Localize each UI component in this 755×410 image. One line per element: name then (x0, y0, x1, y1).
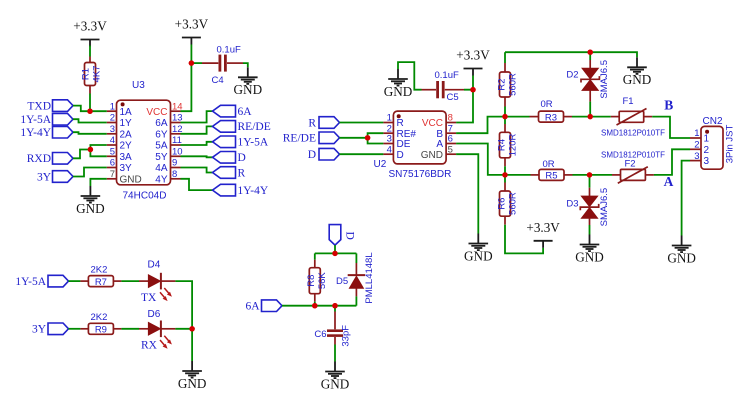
wire R4 to junction (504, 166, 506, 175)
CN2 pin names (704, 134, 710, 168)
capacitor C4 0.1uF (202, 45, 243, 86)
node junction +3.3V/C4 (189, 60, 194, 65)
svg-text:1: 1 (387, 113, 392, 124)
svg-text:D4: D4 (148, 259, 161, 270)
ground (LEDs) (178, 361, 207, 391)
diode D6 LED RX (139, 309, 175, 351)
wire R7 to D4 (121, 280, 139, 282)
resistor R2 560R (497, 52, 519, 106)
wire R flag to U2 pin1 (340, 122, 384, 124)
node junction R2/R4/B (502, 114, 507, 119)
svg-text:4K7: 4K7 (92, 66, 103, 83)
node junction D2 bottom (588, 114, 593, 119)
svg-text:D: D (308, 149, 316, 161)
svg-text:5Y: 5Y (155, 152, 168, 163)
node junction C6 top (332, 303, 337, 308)
wire 3Y to U3 pin6 (73, 168, 107, 177)
svg-text:D5: D5 (336, 276, 348, 287)
svg-text:SMD1812P010TF: SMD1812P010TF (601, 128, 665, 137)
svg-text:F1: F1 (623, 96, 634, 107)
resistor R8 56K (306, 253, 328, 301)
node junction C5/+3.3V/pin8 (470, 87, 475, 92)
ground (U2 pin5) (464, 234, 493, 264)
svg-text:PMLL4148L: PMLL4148L (364, 252, 375, 303)
svg-text:1: 1 (110, 101, 115, 112)
svg-text:R9: R9 (95, 325, 107, 336)
wire top rail R2 to GND corner (505, 52, 637, 57)
svg-text:SMAJ6.5: SMAJ6.5 (599, 188, 610, 227)
svg-text:RX: RX (141, 340, 158, 352)
svg-text:8: 8 (172, 169, 177, 180)
svg-text:R: R (308, 117, 316, 129)
wire junction to C4 (191, 62, 202, 64)
wire C4 to ground (243, 63, 248, 67)
wire D flag to U2 pin4 (340, 153, 384, 155)
svg-text:DE: DE (397, 139, 411, 150)
svg-text:A: A (664, 174, 674, 189)
wire RXD to junction (73, 150, 90, 159)
svg-text:R1: R1 (81, 68, 92, 80)
svg-text:R2: R2 (497, 78, 508, 90)
svg-text:3: 3 (110, 124, 115, 135)
junction dots top layer (87, 50, 593, 332)
node junction RE/DE (365, 135, 370, 140)
transistor U2 SN75176BDR body (374, 111, 452, 180)
svg-text:0.1uF: 0.1uF (217, 45, 241, 56)
U3 right pin stubs (171, 111, 181, 179)
U2 left pin stubs (383, 123, 393, 155)
svg-text:6A: 6A (238, 106, 253, 118)
U3 pin names right (146, 107, 167, 186)
svg-text:6Y: 6Y (155, 129, 168, 140)
net flag 6A (U3 pin13) (213, 105, 253, 118)
svg-text:A: A (436, 139, 443, 150)
resistor R5 0R (531, 159, 573, 182)
svg-text:4: 4 (110, 135, 115, 146)
svg-text:3Pin JST: 3Pin JST (725, 125, 736, 164)
svg-text:RE/DE: RE/DE (238, 121, 271, 133)
wire junction down to U2 pin8 (456, 90, 473, 123)
resistor R7 2K2 (80, 264, 121, 288)
connector CN2 3Pin JST body (701, 116, 736, 169)
svg-text:1Y-5A: 1Y-5A (238, 137, 269, 149)
wire A net: U2 pin6 to R5 line (456, 144, 530, 175)
wire 3Y flag to R9 (69, 328, 81, 330)
net flag 6A (bottom) (245, 300, 282, 313)
svg-text:RXD: RXD (27, 153, 51, 165)
svg-text:14: 14 (172, 101, 183, 112)
net flag 1Y-4Y (U3 pin3) (20, 126, 73, 139)
wire D6 to junction (175, 328, 192, 330)
wire TXD to U3 pin1 (73, 106, 107, 112)
fuse F1 SMD1812P010TF (601, 96, 665, 137)
node junction R8 bottom (312, 303, 317, 308)
svg-text:4Y: 4Y (155, 174, 168, 185)
net flag 1Y-5A (U3 pin2) (20, 113, 73, 126)
resistor R1 4K7 (81, 57, 103, 94)
svg-text:D2: D2 (566, 69, 578, 80)
svg-text:R3: R3 (545, 112, 557, 123)
svg-text:5A: 5A (155, 141, 168, 152)
wire D4 to junction column (175, 281, 192, 329)
wire junction to ground (191, 329, 193, 361)
resistor R4 120R (497, 117, 519, 167)
CN2 pin stubs (690, 138, 701, 161)
diode D5 PMLL4148L (336, 252, 375, 305)
svg-text:2K2: 2K2 (91, 264, 108, 275)
svg-text:1Y-5A: 1Y-5A (15, 276, 46, 288)
wire ground to C5 (398, 62, 422, 90)
svg-text:6: 6 (110, 158, 115, 169)
U2 pin numbers (387, 113, 453, 156)
wire U3 pin10 to D flag (181, 156, 213, 157)
svg-text:2A: 2A (120, 129, 133, 140)
svg-text:1A: 1A (120, 107, 133, 118)
svg-text:D3: D3 (566, 198, 578, 209)
U3 pin names left (120, 107, 142, 186)
net flag 1Y-5A (LED row) (15, 275, 68, 288)
svg-text:33pF: 33pF (341, 325, 352, 347)
svg-text:D: D (238, 152, 246, 164)
svg-text:2: 2 (694, 140, 699, 151)
svg-text:6A: 6A (155, 118, 168, 129)
wire top horizontal R8/D5 (315, 252, 357, 254)
net flag D (U2 pin4) (308, 148, 340, 161)
svg-text:2: 2 (110, 113, 115, 124)
svg-text:1Y: 1Y (120, 118, 133, 129)
ground (C6) (321, 362, 350, 392)
net flag 3Y (U3 pin6) (37, 171, 73, 184)
net flag TXD (27, 100, 73, 113)
svg-text:560R: 560R (508, 192, 519, 215)
svg-text:0R: 0R (543, 159, 555, 170)
svg-text:4: 4 (387, 144, 392, 155)
net flag RE/DE (U3 pin12) (213, 121, 271, 134)
wire +3.3V down to U3 pin14 (181, 45, 192, 112)
svg-text:GND: GND (421, 150, 443, 161)
capacitor C6 33pF (314, 306, 351, 347)
wire 1Y-5A flag to R7 (69, 280, 81, 282)
power flag +3.3V (R6) (526, 220, 560, 248)
op-amp U3 74HC04D body (117, 80, 171, 202)
svg-text:2: 2 (704, 145, 710, 156)
svg-text:SMAJ6.5: SMAJ6.5 (599, 60, 610, 99)
svg-text:SN75176BDR: SN75176BDR (389, 169, 452, 180)
svg-text:2K2: 2K2 (91, 312, 108, 323)
diode D2 SMAJ6.5 (566, 52, 610, 116)
U2 pin names (397, 118, 444, 161)
ground (C5) (384, 69, 413, 99)
wire U2 pin5 to ground (456, 154, 478, 233)
wire D flag down to junction (334, 245, 336, 253)
net flag R (U3 pin9) (213, 167, 246, 180)
power flag +3.3V (U3 VCC) (175, 17, 209, 45)
svg-text:1Y-5A: 1Y-5A (20, 114, 51, 126)
svg-text:C5: C5 (447, 92, 459, 103)
wire U3 pin7 to ground (90, 179, 106, 186)
svg-text:D: D (344, 232, 356, 240)
svg-text:D: D (397, 150, 404, 161)
svg-text:C4: C4 (212, 75, 224, 86)
svg-text:11: 11 (172, 135, 182, 146)
wire U3 pin4 to pin5 (90, 145, 106, 156)
wire R3 to F1 (572, 116, 611, 118)
svg-text:R: R (238, 167, 246, 179)
wire U3 pin9 to R flag (181, 168, 213, 173)
svg-text:560R: 560R (508, 73, 519, 96)
node junction D2 top rail (588, 50, 593, 55)
ground (C4) (234, 67, 263, 97)
wire 1Y-4Y to U3 pin3 (73, 132, 107, 134)
wire C6 to ground (334, 345, 336, 362)
svg-text:D6: D6 (148, 309, 161, 320)
wire RE/DE flag to junction (340, 137, 368, 139)
wire R6 to +3.3V (505, 225, 543, 254)
node junction D4/D6 (189, 326, 194, 331)
svg-text:120R: 120R (508, 134, 519, 157)
net flag 1Y-4Y (U3 pin8) (213, 184, 269, 197)
wire U3 pin12 to RE/DE flag (181, 126, 213, 133)
wire R5 to F2 (573, 174, 613, 176)
node junction R4/R6/A (502, 172, 507, 177)
svg-text:3A: 3A (120, 152, 133, 163)
svg-text:3: 3 (694, 151, 699, 162)
U3 pin numbers right (172, 101, 183, 180)
svg-text:3: 3 (704, 156, 710, 167)
U3 left pin stubs (107, 111, 117, 179)
svg-text:1: 1 (704, 134, 710, 145)
svg-text:3: 3 (387, 134, 392, 145)
svg-text:1Y-4Y: 1Y-4Y (20, 127, 51, 139)
power flag +3.3V (R1 pull-up) (73, 19, 107, 47)
svg-text:6: 6 (448, 134, 453, 145)
svg-text:R8: R8 (306, 275, 317, 287)
diode D4 LED TX (139, 259, 175, 304)
svg-text:5: 5 (448, 144, 453, 155)
ground (U3 pin7) (76, 186, 105, 216)
svg-text:1: 1 (694, 128, 699, 139)
ground (CN2 pin3) (667, 236, 696, 266)
net flag 1Y-5A (U3 pin11) (213, 136, 269, 149)
node junction D3 top (587, 172, 592, 177)
wire C5 to +3.3V junction (464, 76, 473, 90)
wire U3 pin8 to 1Y-4Y flag (181, 179, 213, 190)
svg-text:4A: 4A (155, 163, 168, 174)
node junction D split (332, 251, 337, 256)
svg-text:3Y: 3Y (32, 324, 47, 336)
svg-text:CN2: CN2 (703, 116, 723, 127)
net flag RE/DE (U2) (283, 132, 340, 145)
svg-text:56K: 56K (317, 272, 328, 290)
svg-text:R7: R7 (95, 277, 107, 288)
svg-text:R5: R5 (545, 171, 557, 182)
svg-text:C6: C6 (314, 329, 326, 340)
CN2 pin numbers (694, 128, 699, 162)
svg-text:TX: TX (141, 292, 157, 304)
svg-text:7: 7 (110, 169, 115, 180)
svg-text:0.1uF: 0.1uF (435, 70, 459, 81)
wire junction to U2 pins 2 and 3 (368, 133, 384, 143)
wire R2 to junction (504, 107, 506, 117)
wire R9 to D6 (121, 328, 139, 330)
svg-text:U2: U2 (374, 159, 387, 170)
svg-text:F2: F2 (625, 158, 636, 169)
wire CN2 pin3 to ground (682, 161, 690, 236)
svg-text:VCC: VCC (422, 118, 443, 129)
resistor R9 2K2 (80, 312, 121, 336)
svg-text:RE/DE: RE/DE (283, 133, 316, 145)
U3 pin numbers left (110, 101, 115, 180)
wire U3 pin13 to 6A flag (181, 111, 213, 122)
diode D3 SMAJ6.5 (566, 175, 610, 235)
node junction RXD pins 4-5 (88, 147, 93, 152)
node junction R1/TXD/pin1 (87, 109, 92, 114)
ground (D3) (575, 235, 604, 265)
svg-text:R6: R6 (497, 198, 508, 210)
svg-text:U3: U3 (132, 80, 145, 91)
capacitor C5 0.1uF (422, 70, 465, 103)
svg-text:VCC: VCC (146, 107, 167, 118)
net flag 3Y (LED row) (32, 323, 69, 336)
wire F1 to CN2 pin1 (net B) (652, 117, 690, 138)
svg-text:74HC04D: 74HC04D (123, 191, 167, 202)
wire bottom horizontal 6A line (282, 305, 356, 307)
wire +3.3V to R1 (89, 46, 91, 57)
svg-text:0R: 0R (541, 99, 553, 110)
svg-text:3Y: 3Y (37, 171, 52, 183)
resistor R3 0R (530, 99, 573, 123)
svg-text:R4: R4 (497, 139, 508, 151)
wire F2 to CN2 pin2 (net A) (654, 149, 690, 175)
wire R1 to pin1 node (89, 94, 91, 112)
U2 right pin stubs (446, 123, 456, 155)
wire B net: U2 pin7 to R3 (456, 117, 529, 134)
svg-text:R: R (397, 118, 404, 129)
svg-text:GND: GND (120, 174, 142, 185)
power flag +3.3V (U2 VCC) (456, 48, 490, 76)
svg-text:3Y: 3Y (120, 163, 133, 174)
svg-text:1Y-4Y: 1Y-4Y (238, 185, 269, 197)
ground (top right) (623, 57, 652, 87)
net flag D (U3 pin10) (213, 152, 246, 165)
resistor R6 560R (497, 175, 519, 225)
svg-text:6A: 6A (245, 301, 260, 313)
svg-text:TXD: TXD (27, 100, 51, 112)
svg-text:9: 9 (172, 158, 177, 169)
net flag D (pointing down) (329, 225, 355, 246)
svg-text:5: 5 (110, 147, 115, 158)
svg-text:SMD1812P010TF: SMD1812P010TF (601, 150, 665, 159)
net flag RXD (27, 153, 73, 166)
wire R8 to bottom line (314, 302, 316, 306)
wire 1Y-5A to U3 pin2 (73, 119, 107, 122)
wire U3 pin11 to 1Y-5A flag (181, 142, 213, 145)
svg-text:8: 8 (448, 113, 453, 124)
net flag R (U2 pin1) (308, 117, 339, 130)
svg-text:2Y: 2Y (120, 141, 133, 152)
svg-text:B: B (664, 97, 673, 112)
fuse F2 SMD1812P010TF (601, 150, 665, 183)
